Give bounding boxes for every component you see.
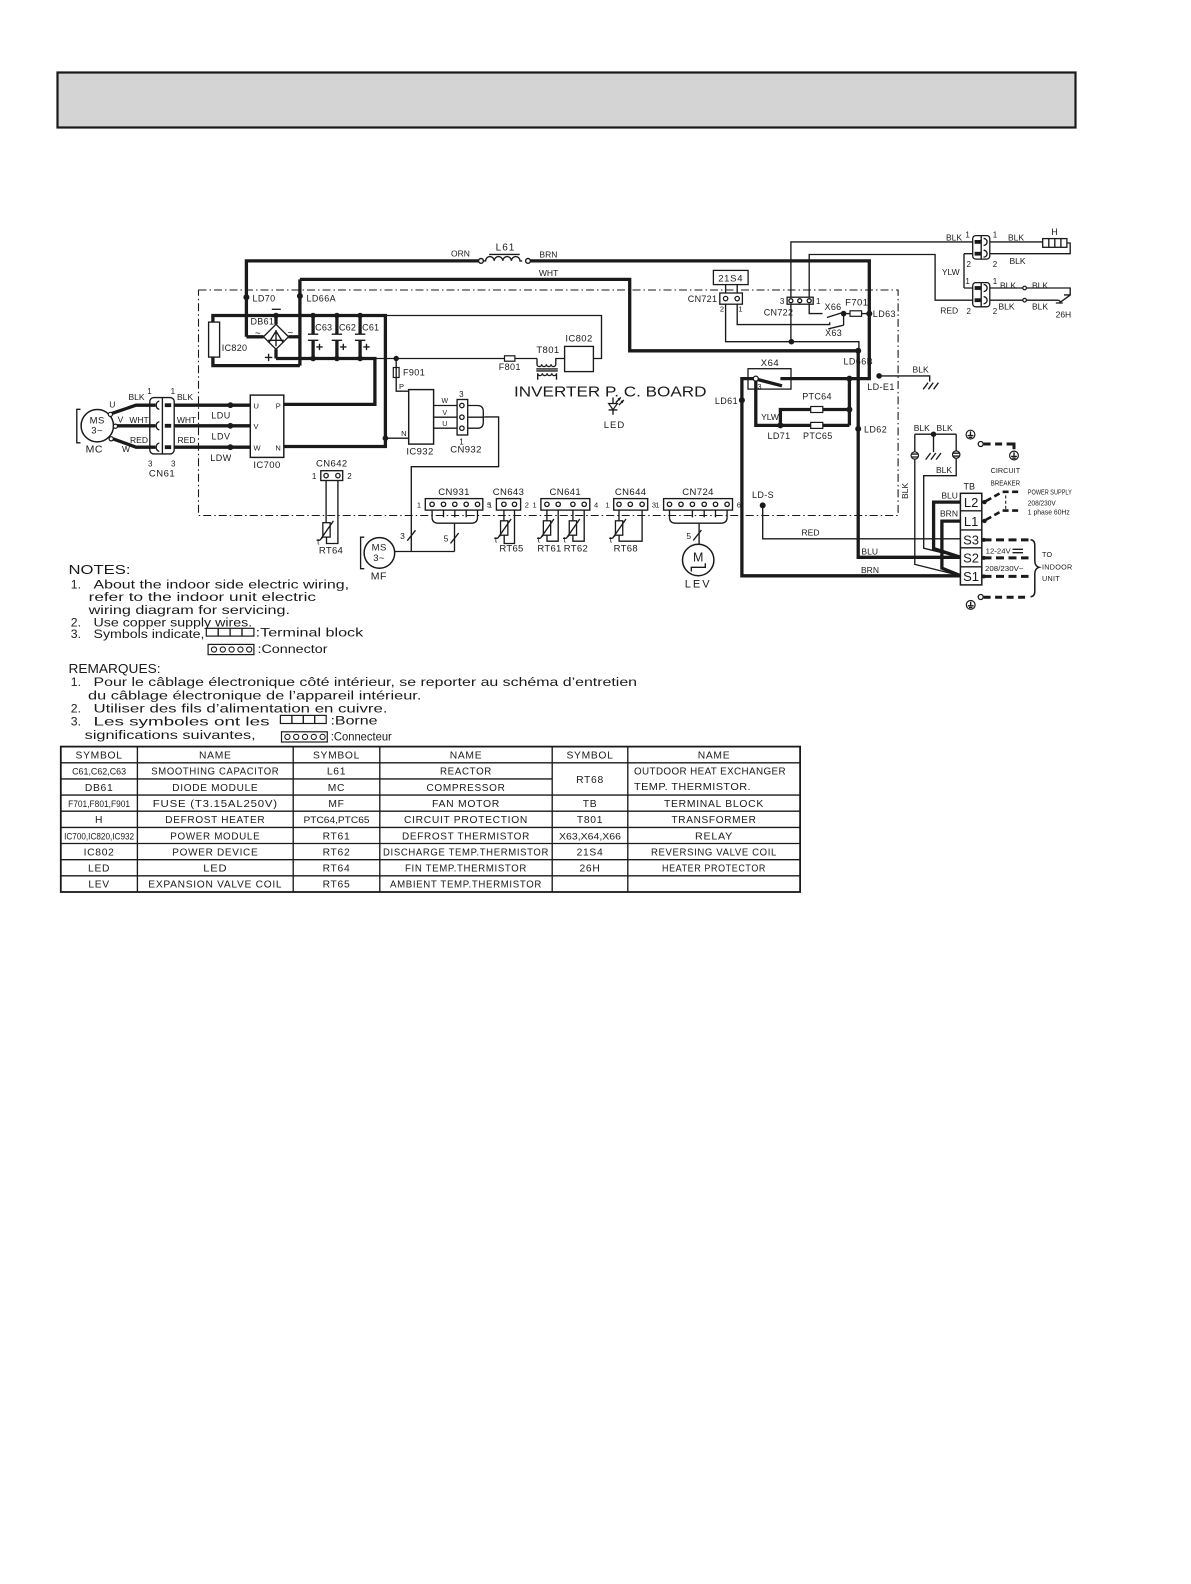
wire DB61 right input to LD66A line xyxy=(289,335,300,338)
node LDV xyxy=(228,423,234,429)
svg-text:FIN TEMP.THERMISTOR: FIN TEMP.THERMISTOR xyxy=(405,864,527,875)
svg-text:M: M xyxy=(693,551,703,565)
svg-text:3: 3 xyxy=(171,460,176,469)
connector CN932 xyxy=(457,400,468,436)
svg-text:U: U xyxy=(442,421,447,428)
svg-text:CN644: CN644 xyxy=(615,487,647,498)
capacitor C61 xyxy=(358,316,361,335)
svg-text:PTC64: PTC64 xyxy=(802,392,832,402)
capacitor C63 xyxy=(311,316,314,335)
svg-text:LED: LED xyxy=(203,864,227,875)
svg-text:208/230V: 208/230V xyxy=(1028,498,1056,507)
wires CN643 to RT65 xyxy=(503,510,505,521)
svg-text:P: P xyxy=(399,382,404,391)
svg-text:POWER MODULE: POWER MODULE xyxy=(170,831,260,842)
svg-text:TO: TO xyxy=(1042,550,1053,559)
node LD66A xyxy=(297,293,303,299)
connector CN641 xyxy=(541,499,590,511)
svg-text:CN61: CN61 xyxy=(149,468,175,479)
svg-text:F801: F801 xyxy=(499,362,521,372)
svg-text:IC700: IC700 xyxy=(253,460,280,471)
svg-text:Pour le câblage électronique c: Pour le câblage électronique côté intéri… xyxy=(94,675,638,689)
svg-text:S3: S3 xyxy=(963,533,979,548)
svg-text:PTC64,PTC65: PTC64,PTC65 xyxy=(304,815,370,826)
svg-text:CIRCUIT: CIRCUIT xyxy=(991,466,1021,475)
connector CN931 xyxy=(425,499,483,511)
terminal S3 dot xyxy=(982,538,986,542)
wire L2 jumper to S2 xyxy=(934,502,961,557)
wire CN722 pin1 to X66 xyxy=(809,304,822,313)
svg-text:TB: TB xyxy=(964,482,976,492)
wire LD61 to terminal S1 (BRN) xyxy=(742,379,961,576)
svg-text:3~: 3~ xyxy=(91,426,103,437)
svg-text:F901: F901 xyxy=(403,368,425,378)
wires IC932 to CN932 xyxy=(434,406,458,429)
wire CN722 pin3 to neutral junction xyxy=(790,304,792,342)
svg-text:CN721: CN721 xyxy=(688,294,718,304)
wire LDV compressor phase V xyxy=(166,424,251,427)
filter capacitor right xyxy=(955,434,957,451)
svg-text:5: 5 xyxy=(444,534,449,544)
wire LDU compressor phase U xyxy=(166,404,251,407)
svg-text:6: 6 xyxy=(737,500,741,509)
X64 contact xyxy=(753,376,758,381)
fuse F701 xyxy=(844,313,850,315)
svg-text:BLK: BLK xyxy=(177,392,193,402)
relay X64 xyxy=(748,369,791,389)
svg-text:MF: MF xyxy=(371,570,387,582)
svg-text:LEV: LEV xyxy=(685,579,712,591)
node LD66B xyxy=(855,348,861,354)
svg-text:3.: 3. xyxy=(71,714,81,728)
svg-text:26H: 26H xyxy=(1056,310,1072,320)
svg-text:LED: LED xyxy=(88,864,110,875)
svg-text:N: N xyxy=(275,443,280,452)
wire bundle CN932 to fan motor MF xyxy=(468,406,484,417)
connector CN643 xyxy=(496,499,520,511)
svg-text:BLK: BLK xyxy=(1032,301,1048,311)
svg-text:3: 3 xyxy=(757,382,761,391)
svg-text:RT61: RT61 xyxy=(323,831,351,842)
svg-text:Symbols indicate,: Symbols indicate, xyxy=(94,627,205,641)
svg-text:LD71: LD71 xyxy=(767,431,790,441)
transformer T801 xyxy=(537,359,565,367)
svg-text:CN931: CN931 xyxy=(438,487,470,498)
svg-text:H: H xyxy=(95,815,103,826)
wire L1 jumper to S1 xyxy=(942,521,961,576)
svg-text:1: 1 xyxy=(816,297,821,306)
svg-text:3: 3 xyxy=(459,390,464,399)
svg-text:CN643: CN643 xyxy=(493,487,525,498)
svg-text:~: ~ xyxy=(255,329,261,340)
wires CN642 to RT64 xyxy=(325,481,327,523)
connector CN61 xyxy=(150,398,174,454)
connector CN644 xyxy=(614,499,648,511)
svg-text:H: H xyxy=(1051,227,1058,237)
svg-text:BREAKER: BREAKER xyxy=(991,479,1021,488)
svg-text:BLU: BLU xyxy=(941,490,958,500)
symbol table xyxy=(61,747,800,892)
svg-text:1: 1 xyxy=(965,277,970,286)
svg-text:26H: 26H xyxy=(580,864,601,875)
wire BRN from L61 to X64 contact, down right side xyxy=(530,261,869,379)
wire MC V phase WHT xyxy=(115,424,156,427)
svg-text:5: 5 xyxy=(686,531,691,541)
resistor IC820 xyxy=(211,320,214,323)
chassis ground xyxy=(923,383,938,390)
capacitor C62 xyxy=(335,316,338,335)
svg-text:21S4: 21S4 xyxy=(718,273,743,284)
node LD63 xyxy=(866,311,872,317)
svg-text:W: W xyxy=(441,398,448,405)
svg-text:REACTOR: REACTOR xyxy=(440,767,492,778)
node F901 tap xyxy=(394,356,399,361)
svg-text:1: 1 xyxy=(993,230,998,239)
svg-text:C63: C63 xyxy=(315,323,332,333)
svg-text:RT64: RT64 xyxy=(319,545,343,556)
wire RED LD-S to terminal S3 xyxy=(763,505,961,538)
svg-text:S2: S2 xyxy=(963,551,979,566)
svg-text:MC: MC xyxy=(328,783,345,794)
power module IC700 xyxy=(250,395,283,457)
reactor L61 xyxy=(479,259,484,264)
svg-text:DEFROST HEATER: DEFROST HEATER xyxy=(165,815,265,826)
svg-text:BLK: BLK xyxy=(128,392,144,402)
svg-text:NAME: NAME xyxy=(698,751,731,762)
connector CN722 xyxy=(787,297,813,304)
svg-text:X63: X63 xyxy=(825,328,842,338)
earth wire bottom xyxy=(978,595,983,600)
wire BLK filter bus xyxy=(915,433,956,435)
svg-text:LDV: LDV xyxy=(211,431,230,441)
svg-text:NAME: NAME xyxy=(199,751,232,762)
svg-text:CN722: CN722 xyxy=(764,307,794,317)
svg-text:1: 1 xyxy=(312,472,317,481)
node LD61 xyxy=(739,397,745,403)
svg-text:SYMBOL: SYMBOL xyxy=(313,751,360,762)
svg-text:LD62: LD62 xyxy=(864,425,887,435)
svg-text:F701,F801,F901: F701,F801,F901 xyxy=(68,799,130,809)
svg-text:WHT: WHT xyxy=(177,415,196,425)
svg-text:POWER SUPPLY: POWER SUPPLY xyxy=(1028,488,1072,497)
svg-text:C61: C61 xyxy=(362,323,379,333)
svg-text:W: W xyxy=(254,443,262,452)
connector heater protector pair xyxy=(973,283,990,307)
svg-text:TRANSFORMER: TRANSFORMER xyxy=(672,815,757,826)
node LD71 xyxy=(777,422,783,428)
svg-text:BLK: BLK xyxy=(998,301,1014,311)
svg-text:DIODE MODULE: DIODE MODULE xyxy=(172,783,258,794)
svg-text:BRN: BRN xyxy=(861,565,879,575)
wire X64 to PTC network xyxy=(756,381,781,425)
svg-text:X63,X64,X66: X63,X64,X66 xyxy=(559,831,621,842)
svg-text:BLK: BLK xyxy=(1032,281,1048,291)
svg-text:NAME: NAME xyxy=(450,751,483,762)
node LDU xyxy=(228,402,234,408)
svg-text:RT62: RT62 xyxy=(564,544,588,555)
header bar xyxy=(58,73,1076,128)
svg-text:L1: L1 xyxy=(964,514,978,529)
svg-text:du câblage électronique de l’a: du câblage électronique de l’appareil in… xyxy=(88,688,421,702)
node LD-E1 and earth wire xyxy=(876,373,882,379)
svg-text:3: 3 xyxy=(400,531,405,541)
svg-text:LEV: LEV xyxy=(88,880,110,891)
svg-text:TB: TB xyxy=(583,799,598,810)
svg-text:TEMP. THERMISTOR.: TEMP. THERMISTOR. xyxy=(634,782,751,793)
svg-text:1.: 1. xyxy=(71,577,81,591)
circuit breaker pole L2 xyxy=(982,500,986,504)
svg-text:2.: 2. xyxy=(71,702,81,716)
svg-text:C61,C62,C63: C61,C62,C63 xyxy=(72,767,126,777)
svg-text:BLK: BLK xyxy=(1008,233,1024,243)
svg-text:IC802: IC802 xyxy=(565,334,592,345)
svg-text:2: 2 xyxy=(993,307,998,316)
svg-text:Les symboles ont les: Les symboles ont les xyxy=(94,714,270,728)
svg-text:L61: L61 xyxy=(327,767,346,778)
wire WHT from LD66A across to LD66B xyxy=(298,279,301,365)
svg-text:U: U xyxy=(254,401,259,410)
svg-text:BRN: BRN xyxy=(539,250,557,260)
svg-text:W: W xyxy=(122,444,130,454)
wire DB61 plus output to positive bus xyxy=(274,349,277,358)
3-wire slash xyxy=(407,530,415,540)
svg-text::Connecteur: :Connecteur xyxy=(331,730,392,744)
svg-text:BLK: BLK xyxy=(1000,281,1016,291)
svg-text::Connector: :Connector xyxy=(258,642,328,656)
inverter P.C. board dash-dot border xyxy=(199,290,899,516)
wire PTC join to hot line xyxy=(848,379,851,426)
wire CN721 pin2 to neutral xyxy=(726,304,859,351)
svg-text:LD-S: LD-S xyxy=(752,490,774,500)
node LD70 xyxy=(243,294,249,300)
wire S3 dashed to indoor unit xyxy=(984,538,1029,541)
svg-text:BLK: BLK xyxy=(914,423,930,433)
svg-text:T801: T801 xyxy=(536,345,559,356)
svg-text:2: 2 xyxy=(525,500,529,509)
svg-text:TERMINAL BLOCK: TERMINAL BLOCK xyxy=(664,799,764,810)
wire LDW compressor phase W xyxy=(166,446,251,449)
node CN721 pin2 / heater BLK junction xyxy=(789,339,795,345)
svg-text:1: 1 xyxy=(965,230,970,239)
svg-text:RT64: RT64 xyxy=(323,864,351,875)
svg-text:EXPANSION VALVE COIL: EXPANSION VALVE COIL xyxy=(148,880,282,891)
svg-text:BLK: BLK xyxy=(913,365,929,375)
terminal V xyxy=(113,424,117,428)
svg-text:SYMBOL: SYMBOL xyxy=(566,751,613,762)
terminal block symbol french xyxy=(280,715,326,723)
connector symbol english xyxy=(208,644,254,654)
svg-text:L61: L61 xyxy=(496,243,516,254)
fuse F901 xyxy=(396,359,409,392)
negative DC bus xyxy=(213,316,386,447)
svg-text:IC802: IC802 xyxy=(84,847,115,858)
heater protector 26H xyxy=(1056,295,1071,303)
svg-text:1: 1 xyxy=(147,387,152,396)
LED xyxy=(612,398,614,404)
svg-text:1.: 1. xyxy=(71,675,81,689)
thermistor RT62 discharge xyxy=(569,521,576,535)
svg-text:L2: L2 xyxy=(964,495,978,510)
svg-text:RT65: RT65 xyxy=(499,544,523,555)
5-wire slash xyxy=(451,533,459,543)
svg-text:3~: 3~ xyxy=(373,553,385,564)
svg-text:3: 3 xyxy=(780,297,785,306)
svg-text:CIRCUIT PROTECTION: CIRCUIT PROTECTION xyxy=(404,815,528,826)
svg-text:C62: C62 xyxy=(339,323,356,333)
connector CN642 xyxy=(321,471,343,481)
compressor motor MC xyxy=(81,410,113,442)
wire N branch to IC932 xyxy=(385,437,408,439)
wire bundle CN724 to LEV xyxy=(669,510,671,517)
terminal W xyxy=(109,437,113,441)
power module IC932 xyxy=(409,390,434,445)
svg-text:1: 1 xyxy=(655,500,659,509)
wire RED from CN722 pin1 to heater connector xyxy=(809,255,973,301)
svg-text:DEFROST THERMISTOR: DEFROST THERMISTOR xyxy=(402,831,530,842)
svg-text:P: P xyxy=(276,401,281,410)
svg-text:BLU: BLU xyxy=(861,546,878,556)
svg-text:X64: X64 xyxy=(761,358,779,369)
5-wire slash xyxy=(693,530,701,540)
wire S1 dashed to indoor unit xyxy=(984,575,1029,578)
wires CN641 to RT61 xyxy=(546,510,548,521)
svg-text:CN641: CN641 xyxy=(550,487,582,498)
svg-text:RT62: RT62 xyxy=(323,847,351,858)
node LDW xyxy=(228,444,234,450)
svg-text:CN642: CN642 xyxy=(316,458,348,469)
svg-text::Borne: :Borne xyxy=(331,714,378,728)
svg-text:RED: RED xyxy=(802,527,820,537)
svg-text:1: 1 xyxy=(993,277,998,286)
power device IC802 xyxy=(565,346,594,371)
svg-text:RT68: RT68 xyxy=(576,775,604,786)
svg-text:LDU: LDU xyxy=(211,411,231,421)
wire CN721 pin1 to X63 xyxy=(737,304,830,324)
svg-text:LD66A: LD66A xyxy=(307,294,337,304)
svg-text:2: 2 xyxy=(993,260,998,269)
svg-text:~: ~ xyxy=(287,328,293,339)
node LD62 xyxy=(855,426,861,432)
svg-text:BLK: BLK xyxy=(1009,256,1025,266)
terminal U xyxy=(108,412,112,416)
wire BLK from CN722 pin3 to heater connector xyxy=(791,242,973,297)
svg-text:RED: RED xyxy=(130,435,148,445)
svg-text:UNIT: UNIT xyxy=(1042,574,1060,583)
svg-text:21S4: 21S4 xyxy=(577,847,604,858)
positive DC bus xyxy=(276,359,375,405)
svg-text:INDOOR: INDOOR xyxy=(1042,562,1073,571)
svg-text:LD61: LD61 xyxy=(715,396,738,406)
svg-text:2: 2 xyxy=(720,305,724,314)
terminal block TB xyxy=(960,493,981,585)
wire AC input to diode bridge DB61 xyxy=(246,335,263,338)
svg-text:MF: MF xyxy=(328,799,344,810)
svg-text:DISCHARGE TEMP.THERMISTOR: DISCHARGE TEMP.THERMISTOR xyxy=(383,847,549,858)
relay contact X66 xyxy=(827,313,842,318)
thermistor RT68 outdoor heat exchanger xyxy=(615,521,622,535)
relay contact X63 xyxy=(828,314,843,329)
svg-text:N: N xyxy=(401,429,406,438)
svg-text:IC820: IC820 xyxy=(222,343,248,353)
svg-text:YLW: YLW xyxy=(942,267,960,277)
brace to indoor unit xyxy=(1031,540,1040,597)
svg-text:BLK: BLK xyxy=(946,233,962,243)
connector heater H pair xyxy=(973,236,990,260)
thermistor RT64 fin xyxy=(323,523,330,537)
filter capacitor left xyxy=(914,434,916,452)
circuit breaker handle to earth xyxy=(978,442,983,447)
svg-text:1: 1 xyxy=(738,305,742,314)
wire IC802 to negative bus xyxy=(385,316,601,359)
circuit breaker pole L1 xyxy=(982,519,986,523)
svg-text:RED: RED xyxy=(940,305,958,315)
svg-text:WHT: WHT xyxy=(539,268,558,278)
svg-text:ORN: ORN xyxy=(451,249,470,259)
svg-text:RELAY: RELAY xyxy=(695,831,733,842)
svg-text:COMPRESSOR: COMPRESSOR xyxy=(427,783,506,794)
wires CN641 to RT62 xyxy=(572,510,574,521)
svg-text:1: 1 xyxy=(605,500,609,509)
defrost heater H xyxy=(990,241,1043,243)
svg-text:1: 1 xyxy=(488,500,492,509)
wire DB61 minus output to negative bus xyxy=(274,316,277,325)
svg-text:2: 2 xyxy=(967,307,972,316)
svg-text::Terminal block: :Terminal block xyxy=(256,626,365,640)
svg-text:1: 1 xyxy=(533,500,537,509)
svg-text:RT68: RT68 xyxy=(614,544,638,555)
svg-text:MC: MC xyxy=(86,444,103,456)
svg-text:1 phase 60Hz: 1 phase 60Hz xyxy=(1028,507,1070,516)
svg-text:LD70: LD70 xyxy=(252,294,275,304)
svg-text:HEATER PROTECTOR: HEATER PROTECTOR xyxy=(662,864,766,875)
circuit protection PTC65 xyxy=(780,424,810,427)
thermistor RT61 defrost xyxy=(543,521,550,535)
svg-text:V: V xyxy=(254,422,259,431)
svg-text:YLW: YLW xyxy=(761,412,779,422)
expansion valve coil LEV xyxy=(683,544,714,575)
svg-text:BLK: BLK xyxy=(937,423,953,433)
svg-text:INVERTER P. C. BOARD: INVERTER P. C. BOARD xyxy=(514,383,707,400)
wire bundle CN931 to MF xyxy=(431,510,433,517)
svg-text:LED: LED xyxy=(604,420,625,431)
svg-text:X66: X66 xyxy=(825,302,842,312)
wires to 26H xyxy=(990,287,1023,289)
signal ground xyxy=(926,453,941,460)
svg-text:LD-E1: LD-E1 xyxy=(867,382,895,392)
svg-text:CN724: CN724 xyxy=(682,487,714,498)
fuse F801 xyxy=(505,356,515,361)
svg-text:RED: RED xyxy=(178,435,196,445)
svg-text:WHT: WHT xyxy=(129,415,148,425)
svg-text:About the indoor side electric: About the indoor side electric wiring, xyxy=(94,577,350,591)
wire MF to bundles xyxy=(395,551,455,553)
svg-text:OUTDOOR HEAT EXCHANGER: OUTDOOR HEAT EXCHANGER xyxy=(634,766,786,777)
svg-text:T801: T801 xyxy=(577,815,603,826)
svg-text:BLK: BLK xyxy=(936,465,952,475)
connector CN721 xyxy=(720,293,743,304)
svg-text:REVERSING VALVE COIL: REVERSING VALVE COIL xyxy=(651,847,777,858)
svg-text:V: V xyxy=(118,414,124,424)
svg-text:LD63: LD63 xyxy=(873,309,896,319)
svg-text:RT65: RT65 xyxy=(323,880,351,891)
reversing valve coil 21S4 xyxy=(713,270,748,284)
svg-text:FAN MOTOR: FAN MOTOR xyxy=(432,799,500,810)
wire MC W phase RED xyxy=(112,438,156,447)
svg-text:BRN: BRN xyxy=(940,509,958,519)
wire S2 dashed to indoor unit xyxy=(984,556,1029,559)
svg-text:208/230V~: 208/230V~ xyxy=(985,564,1024,573)
svg-text:DB61: DB61 xyxy=(85,783,114,794)
